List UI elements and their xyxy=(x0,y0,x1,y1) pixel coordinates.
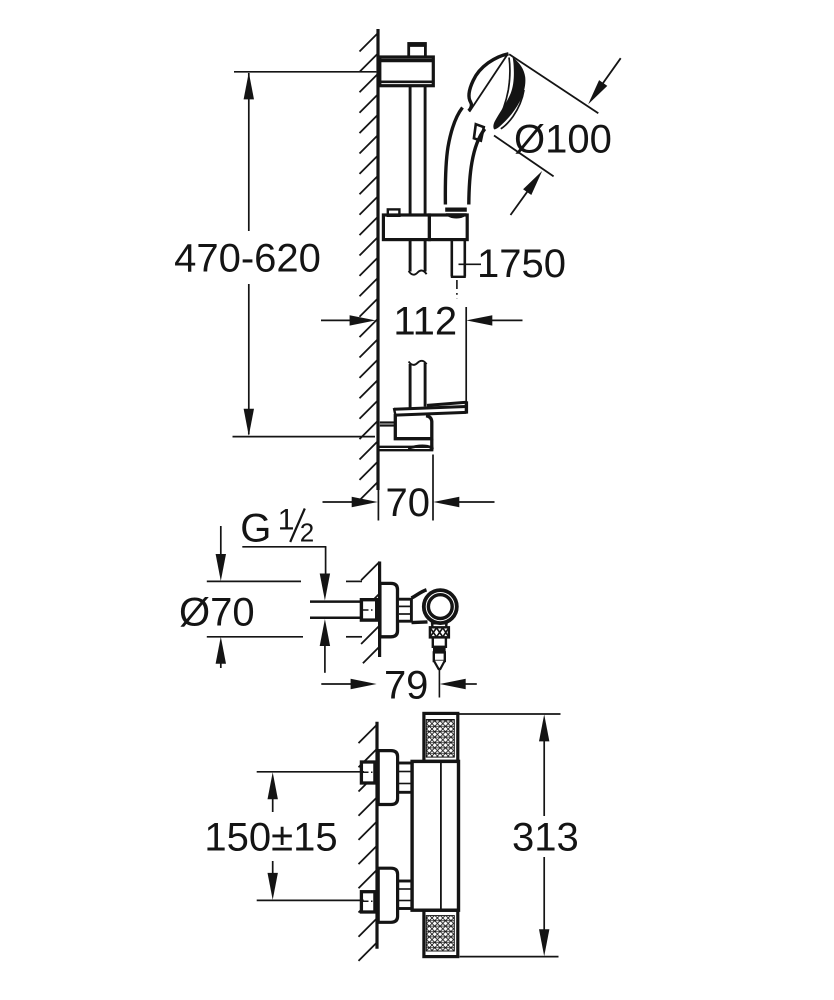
hand shower face plate edge xyxy=(469,54,507,112)
hose centerline dash xyxy=(456,280,458,299)
top wall stub xyxy=(361,762,375,783)
svg-text:79: 79 xyxy=(384,663,429,707)
outlet knurled nut xyxy=(430,627,449,637)
dimension 70 extension line left xyxy=(377,455,379,521)
dimension 470-620 extension line top xyxy=(234,71,376,73)
spray selector tab xyxy=(474,124,484,141)
hand shower rim outer thin arc xyxy=(501,90,524,129)
arrow up (150±15) xyxy=(268,772,278,799)
outlet neck xyxy=(431,623,448,627)
svg-text:112: 112 xyxy=(393,299,457,343)
soap tray surface xyxy=(394,407,467,410)
bottom knurled cap xyxy=(424,910,458,956)
arrow down (150±15) xyxy=(268,873,278,900)
rail lower section with break wave xyxy=(409,361,427,365)
union nut xyxy=(398,599,412,621)
top knurled cap xyxy=(424,713,458,761)
svg-text:2: 2 xyxy=(300,518,314,548)
handle end cap (dark bar) xyxy=(445,208,467,212)
outlet cylinder xyxy=(433,637,446,646)
bottom wall stub xyxy=(361,892,375,912)
handle left edge xyxy=(445,108,462,205)
Ø70 extension line bottom xyxy=(207,636,303,638)
top wall bracket xyxy=(380,57,434,86)
rail bottom wall bracket xyxy=(395,414,432,439)
outlet dark band xyxy=(433,647,446,653)
wall (top figure) xyxy=(376,29,379,490)
rail break wave (below holder) xyxy=(409,271,427,275)
svg-text:G: G xyxy=(240,507,271,551)
svg-text:1750: 1750 xyxy=(477,242,566,286)
outlet centerline xyxy=(438,670,440,698)
arrow down (313) xyxy=(539,929,549,956)
valve body horn xyxy=(411,590,426,598)
G 1/2 underline xyxy=(242,546,326,548)
dimension 70 left arrow xyxy=(323,501,353,503)
dimension 112 line left with arrow xyxy=(321,319,351,321)
hose below holder xyxy=(450,240,453,277)
hand shower spray ring inner thin line xyxy=(497,58,510,124)
svg-text:1: 1 xyxy=(278,503,295,536)
arrow up (313) xyxy=(539,714,549,741)
bottom connection escutcheon xyxy=(378,868,397,922)
svg-text:313: 313 xyxy=(512,815,579,859)
bottom union nut xyxy=(398,881,412,909)
bracket wall stub xyxy=(380,421,395,423)
valve knob inner circle xyxy=(428,595,452,619)
dimension line Ø100 lower tangent xyxy=(494,136,554,177)
dimension Ø70 lower arrow xyxy=(220,663,222,668)
dimension Ø70 upper arrow xyxy=(220,526,222,555)
dimension 150±15 line xyxy=(272,799,274,812)
slider holder cup xyxy=(429,215,467,240)
wall hatching (bottom figure) xyxy=(359,725,378,961)
valve knob outer circle xyxy=(424,590,457,623)
dimension line Ø100 upper tangent xyxy=(509,54,598,113)
svg-text:Ø70: Ø70 xyxy=(179,591,255,635)
G 1/2 leader vertical xyxy=(325,547,327,574)
dimension 150±15 extension bottom xyxy=(257,899,364,901)
dimension 313 extension bottom xyxy=(460,956,559,958)
hand shower head back cover xyxy=(469,54,509,111)
pipe union square xyxy=(361,600,376,620)
dimension 112 line right with arrow xyxy=(491,319,523,321)
slider holder body xyxy=(383,215,429,240)
Ø70 extension line top xyxy=(207,580,301,582)
rail top end knob xyxy=(409,44,426,58)
dimension 112 extension line xyxy=(465,307,467,404)
svg-text:470-620: 470-620 xyxy=(174,237,321,281)
soap tray bottom edge xyxy=(396,412,467,415)
handle conical nut (dark crescent in cup) xyxy=(446,213,467,218)
svg-text:Ø100: Ø100 xyxy=(514,118,612,162)
dimension 150±15 extension top xyxy=(257,771,364,773)
slider holder clamp knob xyxy=(388,209,400,215)
dimension 79 left arrow xyxy=(321,683,351,685)
wall hatching (middle figure) xyxy=(361,562,380,663)
bracket foot bar xyxy=(378,446,433,448)
hand shower spray rim (dark crescent) xyxy=(493,57,525,129)
leader 1750 xyxy=(459,263,482,265)
thermostat body xyxy=(412,761,458,910)
arrow up to pipe bottom xyxy=(320,619,330,646)
soap tray top edge xyxy=(427,402,466,405)
arrow up (470-620) xyxy=(244,72,254,99)
valve flange xyxy=(380,583,398,636)
svg-text:70: 70 xyxy=(386,481,431,525)
top union nut xyxy=(398,763,412,792)
dimension 313 extension top xyxy=(459,713,561,715)
outlet tip taper xyxy=(434,661,445,669)
dimension 70 extension line right xyxy=(432,455,434,521)
dimension 79 right arrow xyxy=(465,683,477,685)
G 1/2 arrow down to pipe xyxy=(320,574,330,601)
arrow to lower tangent xyxy=(511,177,539,215)
svg-text:150±15: 150±15 xyxy=(204,815,337,859)
top connection escutcheon xyxy=(378,751,397,805)
wall (middle figure) xyxy=(378,562,381,658)
outlet lower cylinder xyxy=(434,652,445,661)
handle right edge xyxy=(469,129,485,205)
wall hatching (top figure) xyxy=(360,33,379,500)
arrow to upper tangent xyxy=(591,58,621,100)
shower rail (upper section) xyxy=(409,87,412,215)
wall (bottom figure) xyxy=(375,722,378,949)
dimension 470-620 line xyxy=(248,73,250,231)
dimension 470-620 extension line bottom xyxy=(233,436,376,438)
dimension 70 right arrow xyxy=(459,501,495,503)
supply pipe xyxy=(310,600,361,603)
dimension 313 line xyxy=(543,741,545,816)
arrow down (470-620) xyxy=(244,409,254,436)
